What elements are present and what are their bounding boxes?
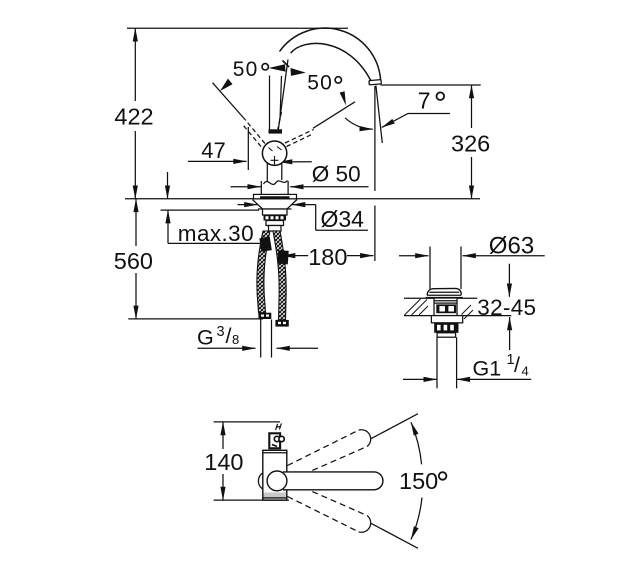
shank stub bbox=[269, 226, 282, 232]
50deg arc arrow right of lever top bbox=[291, 68, 306, 76]
svg-text:422: 422 bbox=[114, 103, 153, 129]
drain tailpipe bbox=[436, 337, 438, 388]
max.30 upper arrow above deck bbox=[167, 172, 169, 199]
svg-text:560: 560 bbox=[114, 248, 153, 274]
svg-text:140: 140 bbox=[204, 449, 243, 475]
right supply hose bbox=[273, 231, 289, 320]
top reference line (spout apex level) bbox=[127, 27, 348, 29]
Ø50 underline with arrow to base right edge bbox=[290, 186, 368, 188]
50deg left arc end arrowhead bbox=[220, 79, 233, 91]
bottom reference line bbox=[214, 499, 289, 501]
G1 1/4 dimension left arrow bbox=[403, 378, 437, 380]
lower angle ray bbox=[371, 523, 418, 548]
stream extension line below deck bbox=[374, 206, 376, 262]
Ø50 leader arrow to ball bbox=[279, 161, 312, 163]
right hose end nut bbox=[275, 320, 288, 327]
326 top reference line bbox=[381, 84, 481, 86]
knurled ring bbox=[264, 215, 287, 221]
knob detail tick bbox=[272, 445, 277, 447]
spout riser front edge bbox=[278, 60, 288, 133]
left hose end nut bbox=[258, 313, 271, 319]
svg-text:4: 4 bbox=[522, 364, 529, 379]
svg-text:/: / bbox=[514, 353, 520, 377]
label G1 1/4 bbox=[473, 352, 529, 381]
mounting cone left slant bbox=[253, 200, 263, 210]
svg-text:50: 50 bbox=[233, 58, 259, 81]
faucet lever right edge bbox=[280, 76, 282, 120]
Ø63 extension lines bbox=[429, 247, 431, 290]
flange bottom thick line bbox=[260, 196, 290, 198]
Ø50 base left arrow bbox=[231, 186, 261, 188]
lower dashed spout position bbox=[288, 484, 368, 532]
deck slab top line at drain bbox=[404, 297, 477, 299]
body bottom gray band bbox=[264, 493, 286, 500]
hose end reference line bbox=[128, 318, 263, 320]
Ø34 leader right segment bbox=[292, 204, 316, 206]
body below ball left edge bbox=[266, 164, 268, 182]
aerator tip bbox=[369, 80, 381, 85]
svg-text:Ø63: Ø63 bbox=[489, 233, 534, 260]
knob eye circles bbox=[274, 436, 279, 441]
47 extension line bbox=[247, 127, 249, 170]
deck slab bottom line at drain bbox=[404, 315, 511, 317]
lower dashed spout cap bbox=[359, 516, 371, 533]
7deg leader line bbox=[382, 114, 450, 128]
svg-text:47: 47 bbox=[201, 138, 225, 163]
body below ball right edge bbox=[281, 163, 283, 180]
lever collar band bbox=[269, 129, 283, 133]
G3/8 right arrow bbox=[277, 347, 319, 349]
svg-text:Ø34: Ø34 bbox=[321, 206, 365, 232]
G3/8 extension lines bbox=[260, 320, 262, 358]
drain cap inner line bbox=[429, 291, 459, 293]
upper angle ray bbox=[371, 414, 418, 439]
drain slotted ring bbox=[434, 323, 458, 333]
Ø34 box vertical bbox=[315, 205, 317, 231]
50deg arc arrow left of lever top bbox=[269, 64, 286, 71]
left supply hose bbox=[257, 231, 272, 313]
svg-text:/: / bbox=[226, 324, 232, 348]
spout outer arc bbox=[280, 28, 381, 80]
deck line (counter top) bbox=[125, 198, 480, 200]
svg-text:Ø 50: Ø 50 bbox=[312, 162, 361, 187]
svg-text:G: G bbox=[197, 326, 214, 350]
mounting nut bbox=[263, 209, 288, 215]
drain valve body below cap bbox=[434, 298, 457, 316]
svg-text:8: 8 bbox=[232, 332, 239, 347]
150deg arc upper bbox=[411, 422, 422, 464]
right tilted lever position dashed lines bbox=[285, 130, 314, 147]
knob box bbox=[269, 433, 280, 448]
left tilted lever position dashed lines bbox=[243, 120, 265, 147]
Ø63 dimension right arrow with tail bbox=[463, 255, 545, 257]
dimension 140 vertical with arrows bbox=[222, 422, 224, 500]
left lever extension line bbox=[213, 83, 246, 120]
lever top cap bbox=[283, 61, 290, 68]
svg-text:32-45: 32-45 bbox=[477, 295, 536, 320]
dimension 47 line with right arrow bbox=[188, 160, 247, 162]
water stream 7deg tilted line bbox=[376, 86, 382, 144]
max.30 underline bbox=[168, 242, 261, 244]
Ø34 underline bbox=[316, 229, 368, 231]
base flange plate bbox=[254, 194, 297, 198]
svg-text:3: 3 bbox=[217, 324, 225, 340]
base cylinder left edge bbox=[260, 181, 262, 194]
lower step bbox=[266, 221, 284, 226]
body rectangle bbox=[263, 450, 287, 500]
body top second line bbox=[263, 452, 287, 454]
svg-text:50: 50 bbox=[307, 71, 333, 94]
32-45 upper arrow bbox=[508, 264, 510, 297]
label G 3/8 bbox=[197, 324, 239, 350]
solid spout bar bbox=[283, 472, 383, 490]
svg-text:180: 180 bbox=[308, 244, 347, 270]
G1 1/4 dimension right arrow with tail bbox=[457, 378, 531, 380]
riser hidden edge dashes bbox=[278, 112, 282, 129]
base cylinder right edge bbox=[287, 181, 289, 194]
max.30 lower arrow pointing up bbox=[167, 210, 169, 243]
drain lower step bbox=[437, 333, 456, 337]
dimension 560 vertical line with arrows bbox=[135, 199, 137, 319]
hub left bulge bbox=[258, 473, 263, 489]
dimension 326 vertical with arrows bbox=[471, 85, 473, 199]
G3/8 dimension line left with arrow bbox=[198, 347, 256, 349]
svg-text:G1: G1 bbox=[473, 357, 502, 381]
Ø34 leader left segment bbox=[238, 204, 258, 206]
knob H mark bbox=[276, 423, 282, 430]
svg-text:max.30: max.30 bbox=[178, 221, 254, 246]
ball tick marks bbox=[269, 147, 282, 165]
faucet lever left edge bbox=[269, 76, 271, 130]
right lever extension line bbox=[313, 102, 355, 129]
deck bottom line (max 30 thickness) bbox=[161, 209, 260, 211]
mounting cone right slant bbox=[287, 200, 297, 210]
upper dashed spout position bbox=[288, 430, 368, 478]
svg-text:150: 150 bbox=[399, 468, 438, 494]
dimension 422 vertical line with arrows bbox=[134, 28, 136, 199]
mounting cone bottom bbox=[258, 208, 292, 210]
cartridge ball bbox=[262, 141, 286, 165]
upper dashed spout cap bbox=[359, 430, 371, 447]
hub circle bbox=[267, 471, 287, 491]
top reference line bbox=[214, 421, 280, 423]
drain locknut bbox=[431, 316, 462, 323]
dimension 180 left arrow bbox=[282, 255, 308, 257]
break squiggle bbox=[264, 181, 288, 185]
spout inner arc bbox=[291, 43, 371, 81]
svg-text:326: 326 bbox=[451, 130, 490, 156]
deck slab hatching bbox=[405, 299, 474, 319]
Ø63 dimension left arrow bbox=[399, 255, 429, 257]
drain cap plate lines bbox=[427, 294, 461, 296]
32-45 lower arrow bbox=[509, 317, 511, 350]
7deg swing arc bbox=[345, 118, 373, 129]
drain cap dome bbox=[427, 288, 461, 295]
50deg right arc end arrowhead bbox=[340, 91, 346, 105]
water stream vertical line bbox=[374, 86, 376, 191]
150deg arc lower bbox=[411, 498, 422, 540]
dimension 180 right arrow bbox=[347, 255, 373, 257]
svg-text:7: 7 bbox=[418, 88, 431, 114]
